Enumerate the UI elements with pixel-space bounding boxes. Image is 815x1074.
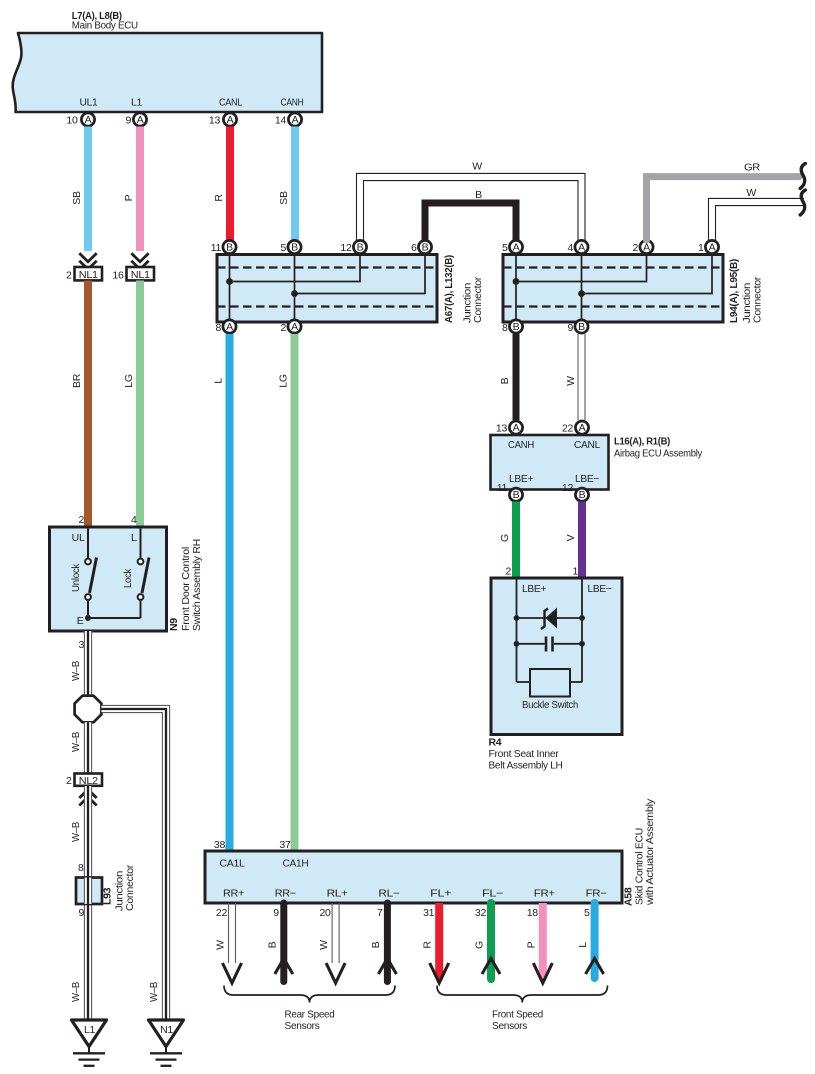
wire W to RR+ speed sensor (RR+) xyxy=(215,903,242,983)
svg-text:22: 22 xyxy=(562,423,574,435)
svg-text:Connector: Connector xyxy=(124,864,136,911)
wire LG from NL1 to N9 pin 4 xyxy=(123,281,140,528)
svg-text:FL+: FL+ xyxy=(430,888,451,900)
svg-text:CANH: CANH xyxy=(281,97,304,109)
svg-text:B: B xyxy=(370,941,382,948)
svg-text:16: 16 xyxy=(112,269,124,281)
wire SB from pin 14 to junction 5(B) xyxy=(278,127,295,241)
svg-text:UL: UL xyxy=(72,532,85,544)
svg-text:GR: GR xyxy=(744,162,761,174)
wire W loop from 12(B) to 4(A) xyxy=(357,161,586,241)
svg-text:V: V xyxy=(565,534,577,541)
ground L1 xyxy=(72,1020,107,1066)
svg-text:2: 2 xyxy=(66,269,72,281)
svg-text:B: B xyxy=(266,941,278,948)
svg-text:32: 32 xyxy=(475,907,487,919)
svg-text:37: 37 xyxy=(279,839,291,851)
svg-text:Rear Speed: Rear Speed xyxy=(285,1009,335,1021)
svg-text:1: 1 xyxy=(698,242,704,254)
svg-text:R: R xyxy=(422,941,434,949)
svg-text:W–B: W–B xyxy=(70,982,82,1002)
svg-text:A: A xyxy=(85,114,92,126)
wire P to FR+ speed sensor (FR+) xyxy=(525,903,552,984)
svg-text:LBE+: LBE+ xyxy=(522,583,546,595)
pin 5(B) junction A67 xyxy=(280,240,301,254)
svg-text:L1: L1 xyxy=(84,1024,96,1036)
svg-text:R4: R4 xyxy=(489,737,502,749)
pin 13(A) airbag ECU xyxy=(496,421,523,435)
svg-text:9: 9 xyxy=(78,907,84,919)
svg-text:12: 12 xyxy=(340,242,352,254)
svg-text:14: 14 xyxy=(275,115,287,127)
svg-text:38: 38 xyxy=(214,839,226,851)
L94 label xyxy=(728,259,764,323)
pin 9(A) main body ECU xyxy=(125,113,146,127)
svg-text:Buckle Switch: Buckle Switch xyxy=(522,699,578,711)
A67 label xyxy=(443,255,484,323)
svg-text:LG: LG xyxy=(278,374,290,388)
svg-text:RR+: RR+ xyxy=(223,888,244,900)
svg-text:B: B xyxy=(513,489,520,501)
svg-text:LBE+: LBE+ xyxy=(509,473,533,485)
svg-text:BR: BR xyxy=(71,373,83,388)
svg-text:LG: LG xyxy=(123,374,135,388)
svg-text:1: 1 xyxy=(572,566,578,578)
svg-text:L: L xyxy=(131,532,137,544)
pin 8(A) junction A67 xyxy=(215,320,236,334)
wire W-B from octagon to NL2 xyxy=(70,722,92,773)
connector NL2 no.2 xyxy=(66,774,102,806)
wire G to FL- speed sensor (FL-) xyxy=(474,903,501,979)
svg-text:G: G xyxy=(499,534,511,542)
airbag ECU assembly L16(A), R1(B) xyxy=(491,435,703,490)
A58 bottom pin labels xyxy=(223,888,607,900)
connector NL1 no.2 xyxy=(66,253,102,281)
lock switch xyxy=(122,527,149,618)
svg-text:11: 11 xyxy=(211,242,222,254)
wire GR from 2(A) to right edge xyxy=(647,162,800,241)
junction connector L94(A), L95(B) box xyxy=(503,255,723,323)
svg-text:22: 22 xyxy=(216,907,228,919)
svg-text:NL1: NL1 xyxy=(131,269,150,281)
svg-text:7: 7 xyxy=(377,907,383,919)
svg-text:A67(A), L132(B): A67(A), L132(B) xyxy=(443,255,455,323)
svg-text:A: A xyxy=(137,114,144,126)
ground N1 xyxy=(149,1020,184,1066)
svg-text:A: A xyxy=(513,422,520,434)
A67 internal wiring xyxy=(226,255,425,323)
svg-text:12: 12 xyxy=(562,482,574,494)
svg-text:W–B: W–B xyxy=(70,822,82,842)
svg-text:B: B xyxy=(422,242,429,254)
R4 label xyxy=(489,737,563,772)
svg-text:SB: SB xyxy=(71,191,83,205)
svg-text:Front Seat Inner: Front Seat Inner xyxy=(489,748,560,760)
wire W-B from N9 to octagon splice xyxy=(70,631,92,695)
svg-text:B: B xyxy=(578,321,585,333)
svg-text:10: 10 xyxy=(66,115,78,127)
pin 10(A) main body ECU xyxy=(66,113,94,127)
svg-text:Airbag ECU Assembly: Airbag ECU Assembly xyxy=(614,448,703,460)
brace rear speed sensors xyxy=(224,986,395,1033)
svg-text:A: A xyxy=(578,242,585,254)
main body ECU L7(A), L8(B) xyxy=(13,10,322,112)
svg-text:LBE−: LBE− xyxy=(588,583,612,595)
svg-text:LBE−: LBE− xyxy=(575,473,599,485)
svg-text:2: 2 xyxy=(280,322,286,334)
svg-text:NL2: NL2 xyxy=(79,775,98,787)
svg-text:9: 9 xyxy=(567,322,573,334)
svg-text:31: 31 xyxy=(423,907,435,919)
wire LG from junction 2(A) to skid ECU pin 37 xyxy=(278,334,295,851)
svg-text:P: P xyxy=(123,194,135,201)
break symbol W wire xyxy=(800,190,805,215)
N9 label xyxy=(168,539,203,631)
svg-text:2: 2 xyxy=(632,242,638,254)
pin 11(B) airbag ECU xyxy=(497,482,523,501)
pin 9(B) junction L94 xyxy=(567,320,588,334)
svg-text:W: W xyxy=(472,161,482,173)
svg-text:P: P xyxy=(525,941,537,948)
pin 22(A) airbag ECU xyxy=(562,421,589,435)
wire W from junction 9(B) to airbag ECU 22(A) xyxy=(565,334,585,420)
svg-text:B: B xyxy=(513,321,520,333)
belt assembly R4 box xyxy=(491,566,622,735)
node dots R4 xyxy=(514,615,585,647)
wire B to RL- speed sensor (RL-) xyxy=(370,903,397,982)
skid control ECU A58 box xyxy=(205,851,622,903)
svg-text:A: A xyxy=(226,321,233,333)
pin 12(B) junction A67 xyxy=(340,240,366,254)
pin 13(A) main body ECU xyxy=(209,113,237,127)
pin 5(A) junction L94 xyxy=(502,240,523,254)
svg-text:8: 8 xyxy=(78,862,84,874)
buckle switch xyxy=(522,669,578,711)
svg-text:B: B xyxy=(579,489,586,501)
zener diode xyxy=(541,608,557,630)
svg-text:B: B xyxy=(226,242,233,254)
svg-text:Unlock: Unlock xyxy=(70,563,82,592)
svg-text:13: 13 xyxy=(496,423,508,435)
svg-text:N1: N1 xyxy=(160,1024,173,1036)
R4 internal wiring xyxy=(517,578,583,682)
wire SB from pin 10 to NL1 xyxy=(71,127,88,252)
wire B to RR- speed sensor (RR-) xyxy=(266,903,293,982)
pin 4(A) junction L94 xyxy=(567,240,588,254)
pin 6(B) junction A67 xyxy=(411,240,432,254)
svg-text:2: 2 xyxy=(78,514,84,526)
svg-text:8: 8 xyxy=(215,322,221,334)
pin 1(A) junction L94 xyxy=(698,240,719,254)
wire R to FL+ speed sensor (FL+) xyxy=(422,903,449,984)
break symbol GR wire xyxy=(800,164,805,189)
svg-text:Main Body ECU: Main Body ECU xyxy=(72,20,138,32)
svg-text:A: A xyxy=(227,114,234,126)
switch assembly N9 box xyxy=(50,514,167,631)
wire W-B from NL2 through L93 to L1 ground xyxy=(70,786,92,1020)
wire B from junction 8(B) to airbag ECU 13(A) xyxy=(499,334,516,420)
svg-text:5: 5 xyxy=(502,242,508,254)
svg-text:W: W xyxy=(318,940,330,950)
svg-text:L94(A), L95(B): L94(A), L95(B) xyxy=(728,259,740,323)
svg-text:CA1L: CA1L xyxy=(220,858,245,870)
wire P from pin 9 to NL1 xyxy=(123,127,140,252)
svg-text:RL−: RL− xyxy=(378,888,399,900)
svg-text:4: 4 xyxy=(567,242,573,254)
pin 2(A) junction L94 xyxy=(632,240,653,254)
svg-text:L: L xyxy=(213,378,225,384)
junction connector L93 xyxy=(76,862,136,919)
pin 11(B) junction A67 xyxy=(211,240,236,254)
svg-text:W: W xyxy=(565,376,577,386)
svg-text:CANL: CANL xyxy=(574,439,600,451)
svg-text:9: 9 xyxy=(273,907,279,919)
svg-text:Sensors: Sensors xyxy=(285,1020,320,1032)
svg-text:6: 6 xyxy=(411,242,417,254)
svg-text:W–B: W–B xyxy=(70,661,82,681)
pin 14(A) main body ECU xyxy=(275,113,302,127)
brace front speed sensors xyxy=(437,986,608,1033)
svg-text:B: B xyxy=(499,377,511,384)
svg-text:Connector: Connector xyxy=(472,276,484,323)
svg-text:18: 18 xyxy=(527,907,539,919)
svg-text:A: A xyxy=(579,422,586,434)
node E junction xyxy=(85,615,141,621)
pin 12(B) airbag ECU xyxy=(562,482,589,501)
svg-text:W–B: W–B xyxy=(70,732,82,752)
pin 2(A) junction A67 xyxy=(280,320,301,334)
capacitor xyxy=(546,637,553,652)
L94 internal wiring xyxy=(513,255,712,323)
svg-text:FR−: FR− xyxy=(586,888,607,900)
svg-text:2: 2 xyxy=(505,566,511,578)
junction connector A67(A), L132(B) box xyxy=(217,255,437,323)
pin 8(B) junction L94 xyxy=(502,320,523,334)
svg-text:B: B xyxy=(291,242,298,254)
svg-text:with Actuator Assembly: with Actuator Assembly xyxy=(644,798,656,906)
A58 label xyxy=(623,798,657,906)
svg-text:A: A xyxy=(513,242,520,254)
svg-text:Sensors: Sensors xyxy=(492,1020,527,1032)
svg-text:5: 5 xyxy=(584,907,590,919)
svg-text:L1: L1 xyxy=(131,97,143,109)
wire W-B branch from octagon to N1 ground xyxy=(101,705,169,1020)
svg-text:Front Speed: Front Speed xyxy=(492,1009,543,1021)
svg-text:A: A xyxy=(709,242,716,254)
svg-text:R: R xyxy=(213,194,225,202)
svg-text:A: A xyxy=(291,321,298,333)
unlock switch xyxy=(70,527,97,618)
svg-text:9: 9 xyxy=(125,115,131,127)
svg-text:N9: N9 xyxy=(168,618,180,631)
svg-text:B: B xyxy=(357,242,364,254)
wire V from airbag 12(B) to R4 pin 1 xyxy=(565,502,582,579)
svg-text:11: 11 xyxy=(497,482,508,494)
svg-text:W: W xyxy=(746,187,756,199)
svg-text:8: 8 xyxy=(502,322,508,334)
wire L from junction 8(A) to skid ECU pin 38 xyxy=(213,334,230,851)
svg-text:UL1: UL1 xyxy=(80,97,98,109)
svg-text:Switch Assembly RH: Switch Assembly RH xyxy=(191,539,203,631)
svg-text:4: 4 xyxy=(131,514,137,526)
svg-text:CA1H: CA1H xyxy=(283,858,309,870)
svg-text:NL1: NL1 xyxy=(79,269,98,281)
svg-text:FL−: FL− xyxy=(482,888,503,900)
octagon splice xyxy=(75,696,102,723)
svg-text:B: B xyxy=(475,189,482,201)
svg-text:SB: SB xyxy=(278,191,290,205)
svg-text:3: 3 xyxy=(78,639,84,651)
A58 bottom pin numbers xyxy=(216,907,590,919)
svg-text:13: 13 xyxy=(209,115,221,127)
wire G from airbag 11(B) to R4 pin 2 xyxy=(499,502,516,579)
wire W to RL+ speed sensor (RL+) xyxy=(318,903,345,983)
wire L to FR- speed sensor (FR-) xyxy=(577,903,604,978)
wire BR from NL1 to N9 pin 2 xyxy=(71,281,88,528)
wire R from pin 13 to junction 11(B) xyxy=(213,127,230,241)
svg-text:L: L xyxy=(577,942,589,948)
svg-text:Lock: Lock xyxy=(122,568,134,588)
svg-text:RR−: RR− xyxy=(275,888,296,900)
svg-text:A: A xyxy=(292,114,299,126)
svg-text:20: 20 xyxy=(320,907,332,919)
svg-text:CANH: CANH xyxy=(508,439,534,451)
svg-text:Connector: Connector xyxy=(752,276,764,323)
svg-text:G: G xyxy=(474,941,486,949)
svg-text:5: 5 xyxy=(280,242,286,254)
svg-text:FR+: FR+ xyxy=(534,888,555,900)
svg-text:2: 2 xyxy=(66,775,72,787)
wire W from 1(A) to right edge xyxy=(709,187,805,240)
svg-text:W–B: W–B xyxy=(148,982,160,1002)
svg-text:W: W xyxy=(215,940,227,950)
connector NL1 no.16 xyxy=(112,253,154,281)
svg-text:L93: L93 xyxy=(102,887,114,905)
wire B loop from 6(B) to 5(A) xyxy=(425,189,516,240)
svg-text:CANL: CANL xyxy=(219,97,242,109)
svg-text:RL+: RL+ xyxy=(327,888,348,900)
svg-text:E: E xyxy=(77,615,84,627)
svg-text:L16(A), R1(B): L16(A), R1(B) xyxy=(614,436,670,448)
svg-text:Belt Assembly LH: Belt Assembly LH xyxy=(489,760,563,772)
